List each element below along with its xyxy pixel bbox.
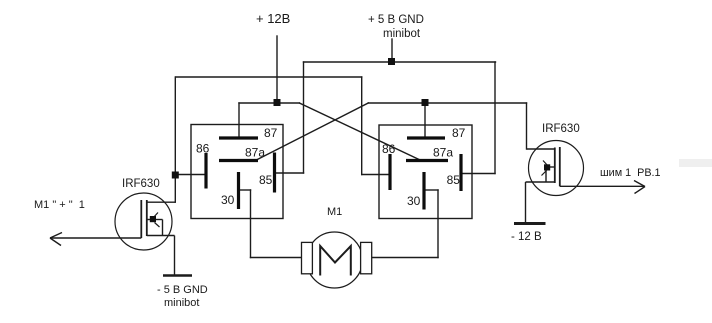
svg-text:M1 " + " 1: M1 " + " 1 xyxy=(34,199,85,211)
svg-text:- 12 В: - 12 В xyxy=(511,231,542,243)
svg-text:minibot: minibot xyxy=(164,297,199,309)
svg-text:M1: M1 xyxy=(327,206,342,218)
svg-text:87а: 87а xyxy=(245,146,265,160)
svg-text:+ 12В: + 12В xyxy=(256,11,290,26)
svg-text:85: 85 xyxy=(447,173,461,187)
svg-text:85: 85 xyxy=(259,173,273,187)
svg-text:IRF630: IRF630 xyxy=(542,123,580,135)
svg-text:- 5 В GND: - 5 В GND xyxy=(157,284,208,296)
svg-text:IRF630: IRF630 xyxy=(122,178,160,190)
svg-text:87: 87 xyxy=(452,126,466,140)
svg-text:87а: 87а xyxy=(433,146,453,160)
svg-text:30: 30 xyxy=(407,194,421,208)
svg-text:86: 86 xyxy=(382,142,396,156)
svg-text:minibot: minibot xyxy=(383,28,421,40)
svg-text:+ 5 В GND: + 5 В GND xyxy=(368,14,424,26)
svg-text:30: 30 xyxy=(221,193,235,207)
svg-text:86: 86 xyxy=(196,142,210,156)
svg-text:87: 87 xyxy=(264,126,278,140)
svg-text:шим 1 РВ.1: шим 1 РВ.1 xyxy=(600,167,661,179)
